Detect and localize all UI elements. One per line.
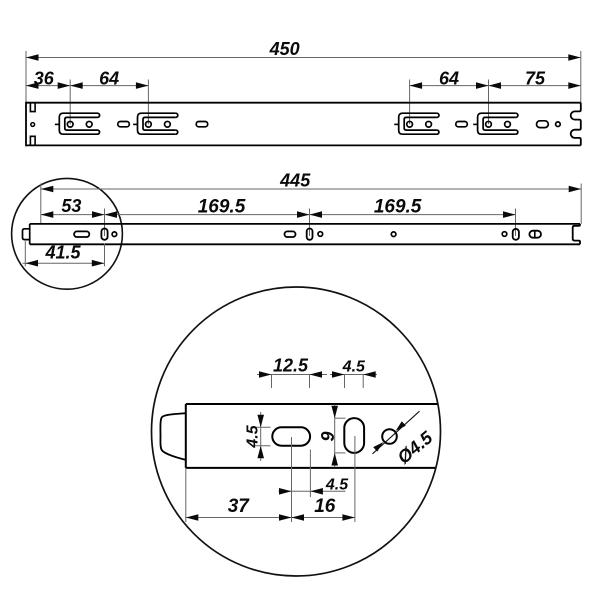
top rail right hole [556, 122, 561, 127]
svg-text:64: 64 [439, 68, 459, 88]
middle rail vslot 1 [101, 229, 107, 240]
dim 12.5 ext stubs [272, 375, 310, 389]
middle rail left tab [23, 229, 30, 240]
dim 4.5 top label [342, 358, 366, 375]
svg-text:37: 37 [228, 496, 251, 517]
detail left tab [160, 413, 185, 460]
detail balloon circle [12, 178, 123, 289]
dim 64 left label [99, 68, 119, 88]
dim 445 line [41, 186, 581, 193]
dim 169.5 first line [105, 211, 310, 218]
detail band left edge [185, 404, 187, 468]
ext line 445 right [580, 184, 582, 224]
dim 9 stubs [335, 418, 346, 453]
dim 4.5 offset line [279, 488, 346, 495]
detail slot [272, 427, 310, 445]
ext line hole B4 [488, 80, 490, 125]
dim 4.5 slot-height label [245, 424, 262, 448]
svg-text:450: 450 [269, 39, 300, 59]
ext line band left [185, 468, 187, 522]
svg-text:4.5: 4.5 [342, 358, 366, 375]
dim 37 label [228, 496, 251, 517]
mount bracket B4 [473, 113, 518, 134]
svg-text:169.5: 169.5 [374, 196, 422, 217]
top rail slot S1 [118, 122, 130, 127]
svg-text:12.5: 12.5 [273, 355, 309, 375]
middle rail hole 2 [318, 232, 323, 237]
dim 450 label [269, 39, 300, 59]
svg-text:16: 16 [314, 496, 336, 517]
dim 4.5 offset label [325, 477, 349, 494]
dim 16 line [292, 514, 355, 521]
top rail upper tab [30, 103, 35, 112]
svg-text:9: 9 [318, 431, 338, 441]
dim 53 line [41, 211, 105, 218]
dim 53 label [61, 196, 81, 216]
middle rail hole 3 [502, 232, 507, 237]
top rail slot S3 [456, 122, 468, 127]
dim 9 line [334, 405, 336, 468]
ext line 41.5 left [24, 241, 26, 266]
detail view circle [152, 287, 441, 576]
svg-text:4.5: 4.5 [325, 477, 349, 494]
detail vertical slot [344, 418, 364, 453]
middle rail hslot 1 [74, 231, 89, 237]
dim 36 line [26, 82, 70, 89]
top rail lower tab [30, 136, 35, 145]
middle rail vslot 2 [307, 229, 313, 240]
dim 12.5 line [257, 371, 327, 378]
middle rail vslot 3 [513, 229, 519, 240]
dim 4.5 slot-height arrows [257, 415, 264, 458]
top rail slot S4 [537, 121, 549, 128]
top rail right end notches [571, 103, 581, 146]
dim 41.5 line [23, 260, 105, 267]
leader arrows [373, 421, 406, 451]
dim 9 label [318, 431, 338, 441]
svg-text:75: 75 [525, 68, 546, 88]
top rail body outline [26, 102, 581, 147]
middle rail hslot 2 [285, 231, 296, 237]
dim 41.5 label [44, 242, 81, 262]
dim 450 line [26, 54, 581, 61]
mount bracket B2 [133, 113, 178, 134]
ext line hole B3 [409, 80, 411, 125]
dim 64 right line [410, 82, 489, 89]
dim 64 left line [70, 82, 148, 89]
ext line oval center [354, 436, 356, 522]
dim 36 label [34, 68, 55, 88]
middle rail hole 1 [112, 232, 117, 237]
dim 4.5 slot-height line [260, 412, 262, 461]
mount bracket B1 [55, 113, 100, 134]
ext line slot V2 [309, 209, 311, 237]
ext line 445 left [40, 184, 42, 224]
svg-text:445: 445 [279, 171, 311, 191]
dim 4.5 top line [330, 371, 377, 378]
dim 169.5 second line [310, 211, 516, 218]
middle rail hole center [391, 232, 396, 237]
dim 75 label [525, 68, 546, 88]
middle rail body outline [30, 224, 580, 244]
detail hole [382, 429, 397, 444]
dim 4.5 slot-height stubs [254, 427, 271, 445]
ext line left of top rail [25, 51, 27, 103]
dim 64 right label [439, 68, 459, 88]
ext line slot right end [309, 450, 311, 498]
middle rail right end notch [573, 224, 580, 244]
leader line [373, 411, 420, 454]
svg-text:4.5: 4.5 [245, 424, 262, 448]
top rail slot S2 [196, 122, 208, 127]
svg-text:169.5: 169.5 [198, 196, 246, 217]
detail band bottom edge [186, 467, 436, 469]
mount bracket B3 [394, 113, 439, 134]
middle rail keyhole slot [529, 231, 541, 238]
svg-text:53: 53 [61, 196, 81, 216]
detail band top edge [186, 403, 438, 405]
ext line slot center [291, 437, 293, 522]
dim 75 line [489, 82, 581, 89]
dim 445 label [279, 171, 311, 191]
ext line 41.5 right [104, 244, 106, 267]
ext line slot V3 [515, 209, 517, 237]
ext line hole B2 [147, 80, 149, 125]
svg-text:64: 64 [99, 68, 119, 88]
ext line hole B1 [69, 80, 71, 125]
svg-text:36: 36 [34, 68, 55, 88]
dim 169.5 second label [374, 196, 422, 217]
diameter label [394, 427, 438, 468]
ext line slot V1 [104, 209, 106, 237]
dim 37 line [186, 514, 292, 521]
ext line right of top rail [580, 51, 582, 103]
dim 9 arrows [331, 406, 338, 466]
top rail left hole [31, 123, 35, 127]
dim 12.5 label [273, 355, 309, 375]
dim 4.5 top ext stubs [345, 375, 364, 389]
svg-text:41.5: 41.5 [44, 242, 81, 262]
dim 169.5 first label [198, 196, 246, 217]
dim 16 label [314, 496, 336, 517]
